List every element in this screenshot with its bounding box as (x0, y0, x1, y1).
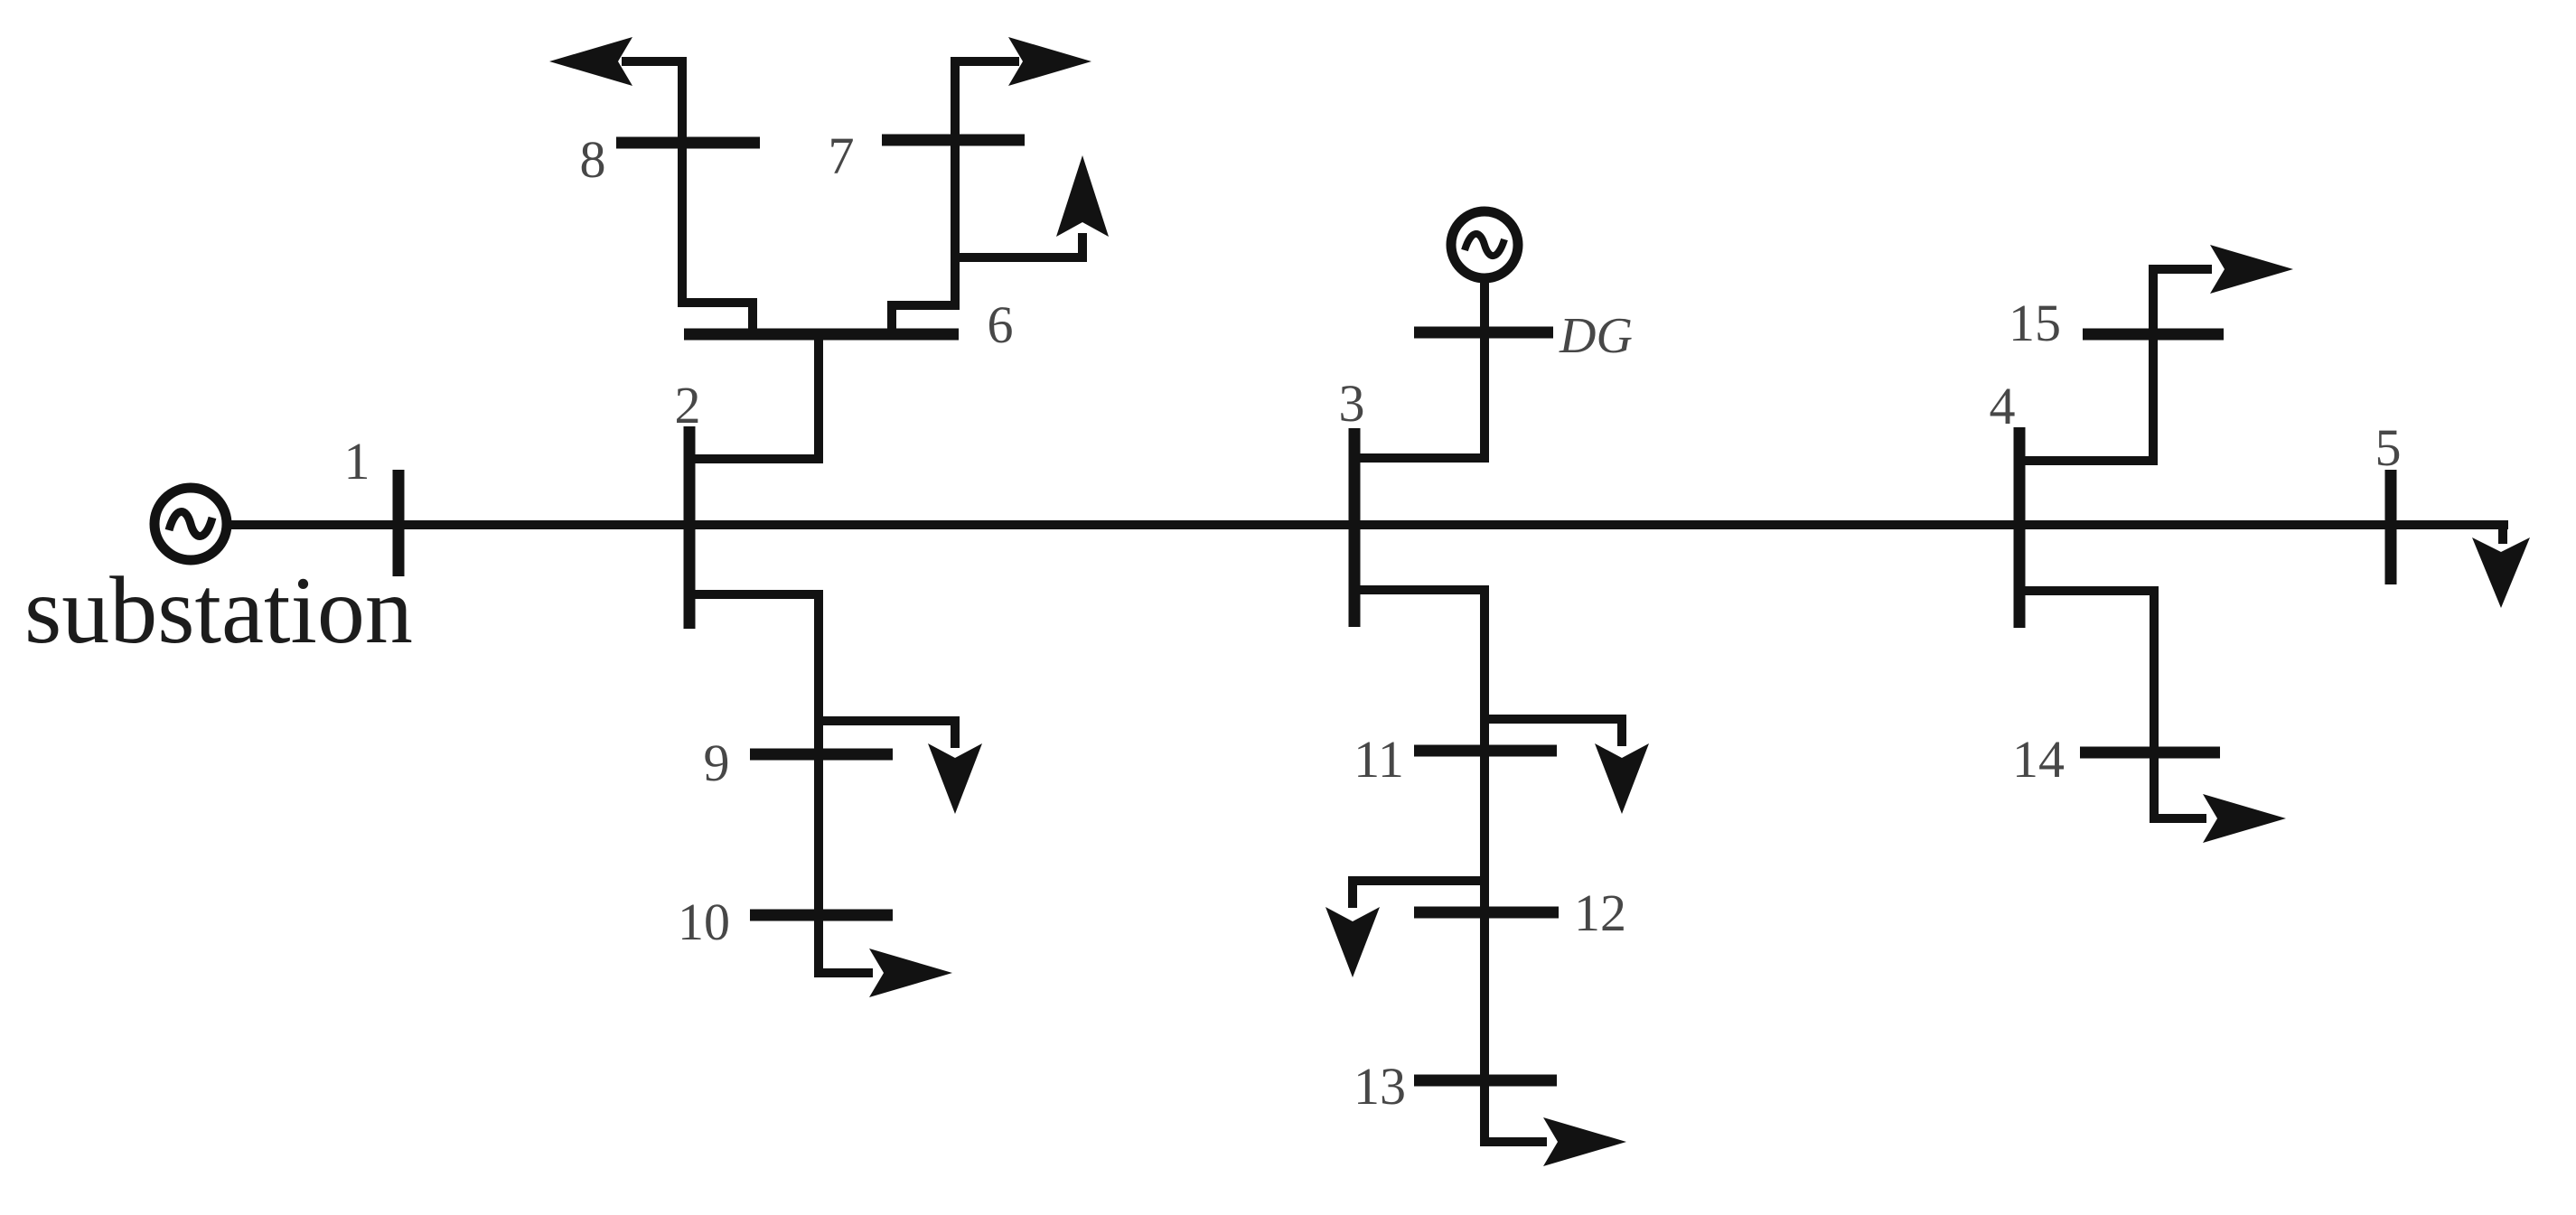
arrowhead load at bus 8 (left) (549, 37, 632, 86)
wire bus2 lower branch to bus 9/10 (689, 594, 873, 973)
DG bus bar (1414, 327, 1553, 339)
svg-text:3: 3 (1339, 374, 1365, 433)
svg-text:10: 10 (678, 893, 730, 951)
arrowhead load up between 7 and 6 (1056, 155, 1109, 237)
svg-text:6: 6 (988, 295, 1014, 354)
svg-text:4: 4 (1990, 377, 2016, 435)
arrowhead load at bus 11 (down) (1595, 743, 1649, 814)
bus 3 bar (1349, 428, 1361, 627)
svg-text:substation: substation (24, 557, 413, 663)
arrowhead load at bus 9 (down) (928, 743, 982, 814)
svg-text:5: 5 (2375, 418, 2402, 477)
bus 11 bar (1414, 745, 1557, 757)
arrowhead load at bus 13 (right) (1543, 1117, 1626, 1166)
svg-text:9: 9 (704, 734, 730, 792)
svg-text:7: 7 (829, 126, 855, 185)
arrowhead load at bus 7 (right) (1008, 37, 1091, 86)
substation AC source symbol (155, 488, 227, 560)
svg-text:2: 2 (675, 376, 701, 435)
wire bus7 up-arrow branch (955, 233, 1082, 257)
wire main feeder line (229, 520, 2508, 529)
arrowhead load at bus 12 (down) (1325, 907, 1380, 977)
bus 2 bar (684, 426, 696, 629)
arrowhead load at bus 10 (right) (869, 949, 952, 997)
bus 9 bar (750, 749, 893, 761)
svg-text:13: 13 (1354, 1057, 1406, 1116)
wire bus3 to DG (1354, 283, 1485, 458)
bus 8 bar (616, 137, 760, 149)
svg-text:8: 8 (580, 130, 606, 189)
svg-text:DG: DG (1559, 308, 1633, 364)
bus 1 bar (393, 470, 405, 576)
bus 7 bar (882, 135, 1025, 146)
bus 13 bar (1414, 1075, 1557, 1087)
arrowhead load at bus 14 (right) (2203, 794, 2286, 843)
bus 14 bar (2080, 747, 2220, 759)
svg-text:1: 1 (344, 432, 370, 491)
wire bus12 load branch (1353, 881, 1485, 908)
svg-text:12: 12 (1574, 883, 1626, 942)
wire bus6 to bus7 line (892, 61, 1019, 334)
arrowhead feeder end (down) (2472, 537, 2530, 608)
wire bus9 load branch (819, 721, 955, 748)
wire bus11 load branch (1485, 719, 1622, 746)
bus 15 bar (2083, 329, 2224, 341)
bus 4 bar (2014, 427, 2026, 628)
bus 10 bar (750, 910, 893, 921)
bus 6 bar (684, 329, 959, 341)
wire bus6 to bus8 line (622, 61, 753, 334)
wire bus2 to bus6 (689, 334, 819, 459)
wire bus3 lower branch to 11/12/13 (1354, 590, 1547, 1142)
wire feeder end shaft (2498, 525, 2507, 544)
wire bus4 to bus15 and load arrow (2019, 269, 2212, 461)
svg-text:11: 11 (1354, 730, 1404, 789)
bus 5 bar (2385, 470, 2397, 584)
arrowhead load at bus 15 (right) (2210, 245, 2293, 294)
bus 12 bar (1414, 907, 1559, 919)
DG AC source symbol (1451, 211, 1518, 278)
svg-text:15: 15 (2009, 294, 2061, 352)
svg-text:14: 14 (2012, 730, 2065, 789)
wire bus4 lower branch to bus 14 (2019, 591, 2206, 818)
